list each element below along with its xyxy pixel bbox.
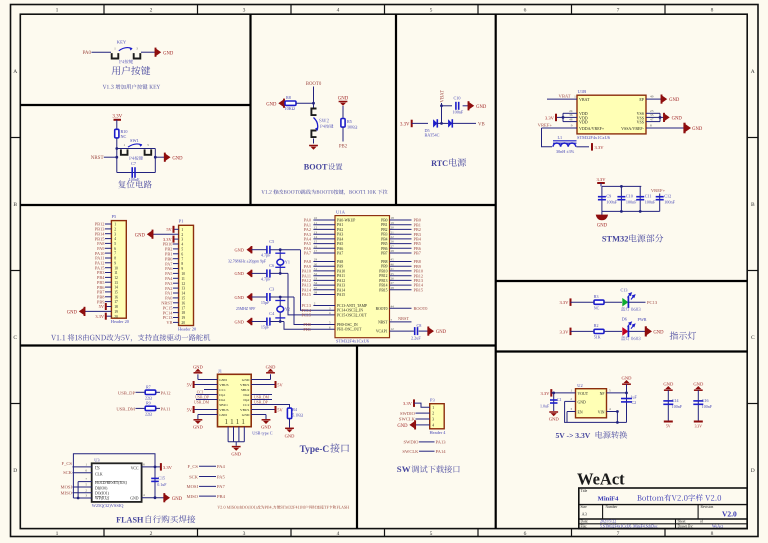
svg-text:BOOT0: BOOT0 [414,306,428,311]
svg-text:23: 23 [650,109,654,113]
capacitor C4 [266,318,268,326]
pin PA5 [313,243,335,245]
svg-text:22: 22 [391,235,395,239]
pin VCAP1 + capacitor C8 [390,330,414,332]
pin 10 P5 [105,267,111,269]
svg-text:17: 17 [314,249,318,253]
svg-text:GND: GND [172,156,183,161]
svg-text:100nF: 100nF [645,199,656,204]
svg-text:U1B: U1B [578,89,587,94]
svg-text:Dn2: Dn2 [243,393,249,397]
svg-text:12: 12 [114,276,118,280]
svg-text:100nF: 100nF [129,177,140,182]
svg-text:PH0-OSC_IN: PH0-OSC_IN [337,323,358,327]
svg-text:10: 10 [314,216,318,220]
svg-text:B: B [13,202,17,208]
svg-text:PA2: PA2 [337,228,343,232]
svg-text:27: 27 [391,244,395,248]
wire [342,106,344,119]
svg-text:Number: Number [606,505,619,509]
svg-text:3.3V: 3.3V [112,114,122,119]
svg-text:100nF: 100nF [453,110,464,115]
pin EN 3 [567,411,576,413]
svg-text:BAT54C: BAT54C [425,133,440,138]
pin 16 P5 [105,296,111,298]
svg-text:PA4: PA4 [337,237,343,241]
svg-text:NRST: NRST [378,320,388,324]
svg-text:PB4: PB4 [217,494,226,499]
svg-text:U1A: U1A [336,209,346,214]
svg-text:9: 9 [571,124,573,128]
svg-text:GND: GND [436,330,447,335]
svg-text:VIN: VIN [598,410,605,414]
svg-text:5.STM32F4x1CxU6_MiniF4.SchDoc: 5.STM32F4x1CxU6_MiniF4.SchDoc [600,525,658,529]
pin 5 P1 [173,248,179,250]
svg-text:USB_DP: USB_DP [118,390,136,395]
svg-text:STM32F4x1CxU6: STM32F4x1CxU6 [577,135,611,140]
pin 10 P1 [173,272,179,274]
svg-text:SW1: SW1 [130,138,139,143]
svg-text:GND: GND [193,424,203,429]
pin NF 5 [607,392,627,394]
wires crystal 2 [270,296,294,298]
svg-text:Dp1: Dp1 [219,393,225,397]
svg-text:6: 6 [181,252,183,256]
wire VBUS right top [251,384,275,386]
svg-text:GND: GND [692,127,703,132]
svg-text:P3: P3 [430,398,435,403]
svg-text:C12: C12 [664,194,671,199]
svg-text:D6: D6 [622,317,627,322]
svg-text:2: 2 [114,228,116,232]
key switch KEY [112,53,119,58]
svg-text:1: 1 [224,417,228,426]
svg-text:Header 20: Header 20 [178,327,197,332]
svg-text:GND: GND [578,400,586,404]
pin PA7 [313,252,335,254]
svg-text:SBU1: SBU1 [219,403,228,407]
pin 8 VCC [142,466,161,468]
svg-text:GND: GND [135,233,146,238]
svg-text:4.7pF: 4.7pF [261,253,271,258]
svg-text:PB5: PB5 [381,242,388,246]
svg-text:PB6: PB6 [381,247,388,251]
pin 14 P1 [173,292,179,294]
svg-text:A3: A3 [582,512,588,517]
ground shield [232,446,241,448]
svg-text:B: B [751,202,755,208]
svg-text:11: 11 [314,221,318,225]
svg-text:30: 30 [314,262,318,266]
svg-text:6: 6 [524,8,527,14]
VSSA GND [646,127,685,129]
svg-text:GND: GND [234,248,243,253]
svg-text:10: 10 [181,272,185,276]
svg-text:8: 8 [711,531,714,537]
svg-text:5: 5 [114,242,116,246]
svg-text:GND: GND [397,424,408,429]
wire [116,138,118,173]
svg-text:26: 26 [391,277,395,281]
svg-text:C5: C5 [269,239,274,244]
svg-text:2.2uF: 2.2uF [411,336,421,341]
svg-text:GND: GND [285,434,295,439]
svg-text:100nF: 100nF [702,404,713,409]
svg-text:PB13: PB13 [379,279,387,283]
switch SW1 [117,148,156,150]
svg-text:PA9: PA9 [337,265,343,269]
svg-text:8: 8 [114,257,116,261]
wire GND bottom-left [198,414,218,416]
svg-text:15pF: 15pF [261,325,270,330]
pin 18 P5 [106,306,112,308]
title 复位电路 [118,180,152,188]
svg-text:37: 37 [314,286,318,290]
wire Dn2 [251,394,272,396]
svg-text:15: 15 [181,297,185,301]
svg-text:1: 1 [123,143,125,147]
svg-text:PWR: PWR [638,317,647,322]
svg-text:STM32F4x1CxU6: STM32F4x1CxU6 [336,339,370,344]
svg-text:2: 2 [150,531,153,537]
wire [441,103,443,123]
pin PA3 [313,233,335,235]
svg-text:USB type C: USB type C [252,430,272,435]
svg-text:12: 12 [391,327,395,331]
svg-text:USB_DP: USB_DP [254,400,268,404]
svg-text:13: 13 [114,281,118,285]
svg-text:F_CS: F_CS [62,461,73,466]
svg-text:1: 1 [56,8,59,14]
svg-text:PB2: PB2 [381,228,388,232]
pin 11 P5 [105,272,111,274]
svg-text:1: 1 [181,228,183,232]
svg-text:5V -> 3.3V: 5V -> 3.3V [556,431,591,440]
svg-text:16: 16 [114,295,118,299]
svg-text:VB: VB [166,320,172,325]
svg-text:Size: Size [581,505,588,509]
svg-text:2: 2 [181,233,183,237]
svg-text:MOSI: MOSI [187,484,199,489]
resistor R4 [287,408,291,419]
svg-text:PB14: PB14 [379,284,387,288]
pin 7 P5 [105,252,111,254]
pin PB3 [390,233,412,235]
pin PB2 [390,228,412,230]
svg-text:F_CS: F_CS [188,464,199,469]
svg-text:USB_DP: USB_DP [195,395,209,399]
pin GND 2 [565,400,576,402]
svg-text:D: D [13,468,17,474]
svg-text:38: 38 [314,291,318,295]
ground [427,327,429,336]
note V2.0 MISO [217,505,349,509]
svg-text:20: 20 [391,226,395,230]
svg-text:10KΩ: 10KΩ [347,125,357,130]
pin VIN 4 [607,411,618,413]
pin PA2 [313,228,335,230]
svg-text:21: 21 [391,267,395,271]
pin 7 P1 [173,258,179,260]
pin 20 P5 [106,315,112,317]
svg-text:WP(IO2): WP(IO2) [95,496,110,500]
crystal Y2 [279,297,281,322]
svg-text:GND: GND [231,451,241,456]
svg-text:W25Q(32)VSSIQ: W25Q(32)VSSIQ [92,503,125,508]
switch SW2 [311,109,316,116]
svg-text:11: 11 [181,277,185,281]
svg-text:2: 2 [432,412,434,416]
pin 13 P5 [105,281,111,283]
inductor L1 [542,128,553,147]
svg-text:GND: GND [663,381,674,386]
capacitor C6 [266,269,268,277]
svg-text:7: 7 [181,257,183,261]
diode D5 BAT54C [433,119,437,127]
svg-text:VBAT: VBAT [440,90,445,103]
wire [92,51,112,53]
ground [601,211,603,215]
svg-text:3.3V: 3.3V [559,329,569,334]
svg-text:C14: C14 [672,398,679,403]
pin 4 P1 [173,243,179,245]
svg-text:CC1: CC1 [219,388,226,392]
svg-text:NC: NC [121,134,127,139]
svg-text:24: 24 [569,109,573,113]
svg-text:CC2: CC2 [243,403,250,407]
svg-text:U2: U2 [577,383,582,388]
svg-text:C: C [751,335,755,341]
resistor R10 [115,129,119,138]
pin PA4 [313,238,335,240]
wire Y1->PC15 [288,273,335,315]
svg-text:PC15: PC15 [301,313,311,318]
svg-text:PA12: PA12 [161,390,172,395]
title 指示灯 [670,331,696,339]
note V1.3 [103,84,160,89]
svg-text:PB3: PB3 [381,233,388,237]
svg-text:Sheet: Sheet [678,520,686,524]
svg-text:VBUS: VBUS [219,383,228,387]
svg-text:PB4: PB4 [381,237,388,241]
wire [342,127,344,141]
svg-text:VB: VB [478,122,485,127]
svg-text:6: 6 [114,247,116,251]
svg-text:3: 3 [114,232,116,236]
svg-text:MiniF4: MiniF4 [598,496,620,503]
ground [163,493,165,502]
wire GND bottom-right [251,414,266,416]
pin PB0 [390,219,412,221]
pin 1 P1 [174,228,179,230]
wire GND top-right [251,379,270,381]
svg-text:3.3V: 3.3V [695,424,703,428]
wire Dn1 [196,399,218,401]
svg-text:VCC: VCC [131,467,139,471]
svg-text:14: 14 [114,286,118,290]
crystal Y1 [279,250,281,274]
svg-text:7: 7 [617,531,620,537]
svg-text:11: 11 [114,271,118,275]
svg-text:25MHZ 9PF: 25MHZ 9PF [236,307,255,311]
svg-text:13: 13 [314,230,318,234]
svg-text:47: 47 [650,117,654,121]
pin 2 P5 [105,228,111,230]
svg-text:MISO: MISO [187,494,199,499]
svg-text:GND: GND [672,117,683,122]
pin PA14 [313,289,335,291]
svg-text:Dn1: Dn1 [219,398,225,402]
svg-text:PB10: PB10 [379,269,387,273]
svg-text:25: 25 [391,272,395,276]
svg-text:PA11: PA11 [161,406,172,411]
svg-text:Header 4: Header 4 [430,430,447,435]
svg-text:PA11: PA11 [337,274,345,278]
svg-text:5: 5 [181,248,183,252]
pin 4 P5 [105,238,111,240]
svg-text:3: 3 [136,47,138,51]
ground [155,48,157,57]
pin 2 P1 [153,233,179,235]
svg-text:1: 1 [230,417,234,426]
svg-text:VBUS: VBUS [240,408,249,412]
svg-text:BOOT: BOOT [304,162,328,171]
svg-text:PA0-WKUP: PA0-WKUP [337,219,355,223]
svg-text:3.3V: 3.3V [400,122,410,127]
svg-text:4: 4 [337,8,340,14]
svg-text:Header 20: Header 20 [111,319,130,324]
svg-text:SCK: SCK [63,470,73,475]
pin PB7 [390,252,412,254]
svg-text:5.1KΩ: 5.1KΩ [292,413,303,418]
svg-text:51K: 51K [594,335,601,340]
svg-text:PA14: PA14 [436,449,447,454]
svg-text:17: 17 [114,300,118,304]
svg-text:16: 16 [181,301,185,305]
svg-text:GND: GND [622,375,633,380]
svg-text:PB15: PB15 [414,287,424,292]
svg-text:C11: C11 [645,194,652,199]
svg-text:3: 3 [147,143,149,147]
svg-text:5: 5 [430,8,433,14]
svg-text:VBAT: VBAT [559,93,571,98]
svg-text:PC14-OSC32_IN: PC14-OSC32_IN [337,309,363,313]
pin 13 P1 [173,287,179,289]
ground [247,318,252,325]
svg-text:12: 12 [181,282,185,286]
svg-text:3.3V: 3.3V [403,401,413,406]
svg-text:31: 31 [314,267,318,271]
svg-text:SWCLK: SWCLK [399,417,416,422]
svg-text:BOOT0: BOOT0 [306,82,322,87]
VSS pins [646,112,660,114]
svg-text:GND: GND [266,102,277,107]
svg-text:26: 26 [391,240,395,244]
svg-text:GND: GND [234,271,243,276]
pin 8 P1 [173,263,179,265]
svg-text:4: 4 [114,237,116,241]
shield pins [227,427,229,442]
svg-text:Date:: Date: [581,520,589,524]
svg-text:EP: EP [639,97,644,102]
pin PA12 [313,279,335,281]
capacitor C1 [553,393,555,411]
pin 17 P1 [173,307,179,309]
ground [247,270,252,277]
wire [104,156,117,158]
svg-text:R7: R7 [146,384,151,389]
svg-text:3.3V: 3.3V [559,300,569,305]
svg-text:4.7pF: 4.7pF [261,276,271,281]
pin NRST [390,321,412,323]
pin 6 P5 [105,247,111,249]
svg-text:PB2: PB2 [339,145,348,150]
svg-text:MISO: MISO [61,491,73,496]
svg-text:PA4: PA4 [217,464,225,469]
svg-text:0.1uF: 0.1uF [157,482,167,487]
svg-text:VSSA/VREF-: VSSA/VREF- [621,126,645,131]
wire [296,102,314,104]
svg-text:1: 1 [236,417,240,426]
svg-text:PA3: PA3 [337,233,343,237]
svg-text:PA14: PA14 [337,288,345,292]
pin PA6 [313,247,335,249]
svg-text:DI(IO0): DI(IO0) [95,486,108,490]
svg-text:GND: GND [653,331,664,336]
svg-text:3: 3 [243,8,246,14]
svg-text:45: 45 [391,258,395,262]
svg-text:12: 12 [314,226,318,230]
svg-text:KEY: KEY [117,39,127,44]
ground [283,99,285,108]
wire Dp1 [196,394,218,396]
svg-text:R9: R9 [146,400,151,405]
svg-text:PC15-OSC32_OUT: PC15-OSC32_OUT [337,313,367,317]
svg-text:FLASH: FLASH [116,515,144,524]
svg-text:C15: C15 [158,475,165,480]
svg-text:U3: U3 [94,457,100,462]
svg-text:9: 9 [114,261,116,265]
svg-text:3.3V: 3.3V [540,391,550,396]
svg-text:15: 15 [114,291,118,295]
svg-text:NRST: NRST [91,156,104,161]
svg-text:C13: C13 [621,287,628,292]
wire Y2->PH1 [284,322,335,330]
svg-text:5V: 5V [277,408,283,413]
pin 7 HOLD [78,481,92,483]
pin 18 P1 [173,312,179,314]
svg-text:5V: 5V [666,424,671,428]
svg-text:R5: R5 [347,119,352,124]
pin 9 P1 [173,268,179,270]
svg-text:GND: GND [242,378,250,382]
svg-text:14: 14 [181,292,185,296]
pin 19 P1 [173,317,179,319]
svg-text:PA10: PA10 [337,269,345,273]
svg-text:GND: GND [234,319,243,324]
svg-text:100nF: 100nF [606,199,617,204]
svg-text:C10: C10 [454,95,461,100]
svg-text:P1: P1 [179,219,184,224]
pin 11 P1 [173,277,179,279]
svg-text:22Ω: 22Ω [145,412,152,417]
pin 12 P1 [173,282,179,284]
svg-text:19: 19 [114,310,118,314]
wire Y1->PC14 [301,250,336,311]
pin 3 P5 [105,233,111,235]
svg-text:GND: GND [193,364,203,369]
wire [313,139,315,144]
